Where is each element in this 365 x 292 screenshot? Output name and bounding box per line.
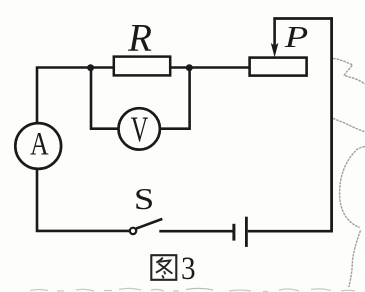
svg-text:S: S xyxy=(134,183,154,217)
svg-text:R: R xyxy=(127,17,152,60)
switch S xyxy=(130,219,163,234)
wire: battery to bottom right corner xyxy=(248,230,333,233)
wire: right vertical xyxy=(330,17,333,231)
wire: voltmeter branch left xyxy=(91,66,119,129)
wire: junction to resistor R xyxy=(91,66,115,69)
svg-text:A: A xyxy=(30,127,49,163)
potentiometer P body xyxy=(250,58,307,76)
potentiometer wiper arrow xyxy=(271,19,279,58)
node: junction left of resistor xyxy=(87,64,94,71)
svg-text:V: V xyxy=(131,109,149,149)
wire: top right from wiper to right side xyxy=(273,17,333,20)
svg-text:3: 3 xyxy=(181,250,196,286)
wire: switch to battery xyxy=(159,230,232,233)
svg-text:P: P xyxy=(284,19,309,54)
wire: right junction to potentiometer P xyxy=(189,66,250,69)
node: junction right of resistor xyxy=(186,64,193,71)
caption: character 图 xyxy=(151,255,176,280)
ammeter A xyxy=(15,123,61,169)
resistor R xyxy=(114,57,170,76)
wire: voltmeter branch right xyxy=(160,66,190,129)
wire: resistor to right junction xyxy=(170,66,189,69)
wire: ammeter bottom down and right to switch xyxy=(37,169,130,231)
voltmeter V xyxy=(119,108,160,149)
battery xyxy=(234,217,247,247)
wire: left side from ammeter top up and right to left junction xyxy=(37,68,91,125)
